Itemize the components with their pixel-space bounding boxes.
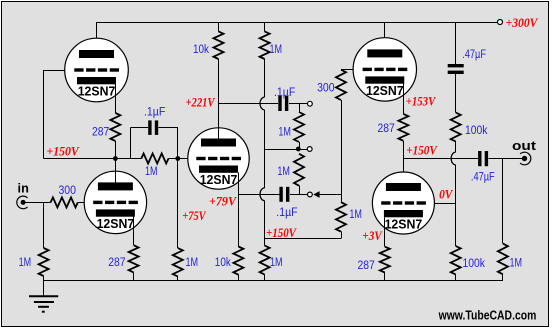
resistor 1M (to bus): [260, 246, 270, 275]
svg-text:300: 300: [58, 185, 76, 197]
svg-text:12SN7: 12SN7: [385, 217, 423, 232]
svg-text:.1µF: .1µF: [274, 87, 295, 99]
triode V1 12SN7 envelope: [65, 38, 129, 102]
svg-text:.1µF: .1µF: [276, 207, 297, 219]
svg-text:300: 300: [317, 83, 335, 95]
svg-text:+221V: +221V: [186, 96, 216, 110]
svg-text:+150V: +150V: [47, 145, 81, 159]
resistor 300 (input): [51, 197, 78, 207]
wire to +150V mid row: [341, 232, 343, 239]
wire 1M column link: [265, 149, 299, 151]
svg-text:0V: 0V: [439, 187, 454, 201]
wire V1 grid left: [44, 70, 65, 72]
resistor 287 (V1 cathode): [110, 113, 120, 141]
wire +150V node to output cap: [403, 158, 477, 160]
svg-text:287: 287: [92, 126, 109, 138]
wire 287 to +150V node: [403, 141, 405, 159]
wire V4 plate up to +150V node: [403, 159, 405, 184]
wire middle cathode down: [238, 173, 240, 247]
svg-text:.47µF: .47µF: [471, 172, 495, 184]
wire +150V node to V1 cathode junction: [44, 158, 116, 160]
resistor 1M (horizontal): [141, 154, 168, 164]
wire cap to terminal: [289, 103, 308, 105]
hop over +79V wire: [260, 188, 265, 201]
resistor 100k (upper): [451, 113, 461, 142]
wire +79V row right: [238, 194, 279, 196]
wire V4 cathode down: [384, 217, 386, 246]
capacitor .47uF (top): [448, 64, 464, 67]
V2b plate bar: [201, 139, 236, 147]
wire 1M column top: [264, 22, 266, 31]
svg-text:1M: 1M: [186, 257, 199, 269]
wire 300 to V2 grid: [78, 202, 85, 204]
wire cap riser right: [158, 127, 178, 129]
V2b grid (dashed): [196, 157, 205, 160]
out jack: [520, 152, 531, 165]
svg-text:287: 287: [378, 123, 395, 135]
svg-text:+150V: +150V: [266, 226, 297, 240]
wire 287 to node: [115, 141, 117, 159]
svg-text:+79V: +79V: [209, 194, 238, 208]
resistor 10k (middle cathode): [233, 247, 243, 275]
terminal (tap upper): [308, 101, 313, 106]
node middle grid junction: [175, 156, 180, 161]
svg-text:12SN7: 12SN7: [200, 172, 238, 187]
triode V2b 12SN7 envelope: [188, 128, 249, 189]
wire V3 cathode down: [403, 84, 405, 114]
wire 10k to bus: [238, 275, 240, 281]
resistor 300 (V3 grid stopper): [336, 70, 346, 100]
resistor 287 (V3 cathode): [398, 114, 408, 141]
wire grid leak down: [177, 159, 179, 249]
resistor 10k (middle plate): [214, 31, 224, 59]
svg-text:12SN7: 12SN7: [97, 216, 135, 231]
svg-text:10k: 10k: [193, 44, 209, 56]
terminal (tap middle): [307, 147, 312, 152]
resistor 1M (divider lower): [294, 154, 304, 186]
wire divider lower to +79V row: [299, 186, 301, 195]
wire cap riser left: [130, 128, 132, 159]
ground symbol: [43, 281, 45, 297]
wire V1 plate to rail: [96, 22, 98, 50]
svg-text:1M: 1M: [270, 44, 283, 56]
wire 300 column down: [341, 100, 343, 202]
V2b cathode bar: [199, 166, 238, 173]
svg-text:100k: 100k: [465, 125, 488, 137]
wire 1M to grid node: [169, 158, 188, 160]
resistor 1M (output load): [498, 244, 508, 275]
svg-text:.1µF: .1µF: [144, 106, 165, 118]
terminal +300V: [498, 20, 503, 25]
node mid tap: [296, 147, 301, 152]
capacitor .47uF (output coupling): [478, 151, 481, 166]
svg-text:+153V: +153V: [406, 95, 437, 109]
svg-text:out: out: [512, 138, 537, 153]
wire output load 1M: [502, 159, 504, 244]
resistor 1M (middle grid leak): [173, 248, 183, 277]
svg-text:10k: 10k: [215, 257, 231, 269]
V1 grid (dashed): [74, 68, 83, 71]
wire B divider upper: [299, 104, 301, 112]
wire mid tap to terminal: [298, 149, 307, 151]
resistor 1M (divider upper): [294, 112, 304, 142]
V3 cathode bar: [365, 76, 404, 83]
V2 plate bar: [98, 182, 133, 190]
svg-text:1M: 1M: [270, 257, 283, 269]
wire 10k to plate: [218, 59, 220, 139]
wire 10k plate column: [218, 22, 220, 31]
svg-text:1M: 1M: [277, 166, 290, 178]
wire 1M to ground bus: [177, 277, 179, 281]
V3 plate bar: [367, 49, 402, 57]
wire V3 plate to rail: [384, 22, 386, 50]
triode V2 12SN7 envelope: [84, 171, 146, 233]
resistor 100k (lower): [451, 246, 461, 275]
wire +150V mid row: [265, 238, 341, 240]
wire divider column from rail: [455, 22, 457, 64]
resistor 287 (V4 cathode): [380, 247, 390, 273]
svg-text:100k: 100k: [463, 258, 486, 270]
V4 grid (dashed): [381, 201, 390, 204]
V2 grid (dashed): [93, 201, 102, 204]
in jack: [17, 196, 28, 209]
wire cap to 100k: [455, 74, 457, 113]
svg-text:www.TubeCAD.com: www.TubeCAD.com: [438, 308, 537, 322]
svg-text:287: 287: [358, 260, 375, 272]
wire cap to terminal: [290, 194, 308, 196]
wire to mid tap: [299, 142, 301, 149]
wire V3 grid left: [341, 69, 353, 71]
resistor 1M (rail divider): [260, 31, 270, 59]
triode V3 12SN7 envelope: [353, 38, 416, 101]
wire with hop over +221V: [264, 59, 266, 97]
capacitor .1uF (+221V coupling): [278, 96, 281, 111]
capacitor .1uF (+79V feedback): [279, 187, 282, 202]
wire V1 cathode down: [115, 84, 117, 113]
wire in jack right: [23, 202, 50, 204]
svg-text:1M: 1M: [145, 166, 158, 178]
wire node to 1M: [115, 158, 141, 160]
wire input 1M column: [43, 202, 45, 248]
svg-text:287: 287: [108, 257, 125, 269]
connection arrow pointing at terminal: [313, 191, 319, 198]
V1 plate bar: [79, 50, 114, 58]
svg-text:+300V: +300V: [506, 16, 539, 30]
wire ground bus: [44, 280, 503, 282]
svg-text:+3V: +3V: [362, 229, 383, 243]
V3 grid (dashed): [363, 68, 372, 71]
svg-text:in: in: [18, 180, 29, 195]
wire cap to out jack: [489, 158, 522, 160]
svg-text:+75V: +75V: [182, 209, 207, 223]
resistor 1M (grid reference): [336, 202, 346, 232]
wire V4 grid right: [434, 203, 456, 205]
terminal (tap lower): [308, 192, 313, 197]
wire V1 grid down to +150V node: [43, 70, 45, 159]
svg-text:12SN7: 12SN7: [78, 84, 116, 99]
wire V2 cathode down: [133, 217, 135, 246]
wire B+ rail: [97, 22, 498, 24]
V4 plate bar: [386, 183, 421, 191]
triode V4 12SN7 envelope: [372, 172, 434, 234]
svg-text:1M: 1M: [19, 257, 32, 269]
wire V2 plate up: [115, 159, 117, 183]
svg-text:1M: 1M: [349, 209, 362, 221]
wire +221V node right: [219, 103, 278, 105]
svg-text:1M: 1M: [278, 126, 291, 138]
resistor 1M (input grid leak): [39, 248, 49, 276]
svg-text:12SN7: 12SN7: [366, 83, 404, 98]
V1 cathode bar: [77, 77, 116, 84]
node V1 cathode / V2 plate junction: [113, 156, 118, 161]
V2 cathode bar: [96, 209, 135, 216]
wire with hop over output row: [455, 142, 457, 153]
svg-text:1M: 1M: [510, 258, 523, 270]
capacitor .1uF (parallel with 1M): [148, 120, 151, 134]
svg-text:.47µF: .47µF: [462, 49, 486, 61]
resistor 287 (V2 cathode): [129, 245, 139, 272]
svg-text:+150V: +150V: [406, 143, 438, 157]
V4 cathode bar: [384, 210, 423, 217]
